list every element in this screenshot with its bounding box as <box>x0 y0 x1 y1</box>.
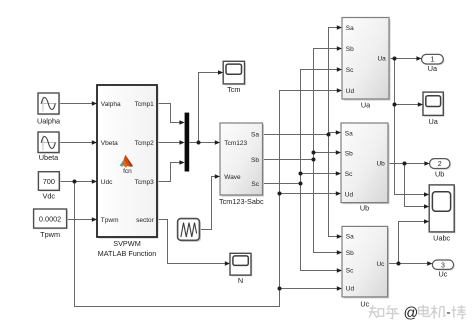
svg-text:Vbeta: Vbeta <box>101 140 118 147</box>
wire Ua branch down to Uabc input 1 <box>395 59 425 195</box>
block Vdc constant 700 <box>38 172 60 192</box>
wire Ualpha to Valpha <box>59 103 93 105</box>
svg-text:Ubeta: Ubeta <box>39 153 59 162</box>
svg-text:Ub: Ub <box>360 204 369 213</box>
wire Uc output to outport 3 <box>388 263 428 265</box>
svg-text:Sb: Sb <box>346 250 354 257</box>
svg-text:Ua: Ua <box>428 64 438 73</box>
arrow into Ub.Sb <box>336 150 341 155</box>
wire Sa bus down to Uc.Sa <box>329 135 338 237</box>
arrow into Wave pin <box>215 174 220 179</box>
arrow into Ub.Ud <box>336 191 341 196</box>
junction Sa bus <box>327 133 331 137</box>
svg-text:Vdc: Vdc <box>43 191 56 200</box>
block Tcm123-Sabc subsystem <box>220 123 264 197</box>
svg-text:@: @ <box>404 306 419 322</box>
svg-text:MATLAB Function: MATLAB Function <box>98 249 157 258</box>
junction Sc bus lower <box>299 182 303 186</box>
wire Sc bus up to Ua.Sc <box>301 70 338 174</box>
block Uc subsystem <box>342 226 389 298</box>
arrow into N scope <box>225 261 230 266</box>
wire Vdc feedback bus to Ua.Ud <box>75 91 338 307</box>
svg-text:Ub: Ub <box>435 169 444 178</box>
svg-text:Sa: Sa <box>251 132 259 139</box>
svg-text:Ua: Ua <box>361 101 371 110</box>
svg-text:SVPWM: SVPWM <box>113 239 141 248</box>
arrow into Uabc input 1 <box>424 192 429 197</box>
junction Sc bus upper <box>299 172 303 176</box>
svg-text:Tcm: Tcm <box>227 85 240 94</box>
wire Sc output to bus <box>263 183 301 185</box>
outport 1 oval <box>422 54 445 65</box>
wire Sb output to bus <box>263 159 314 161</box>
arrow into Tpwm pin <box>92 217 97 222</box>
junction Ua output <box>393 57 397 61</box>
arrow into outport 3 <box>427 261 432 266</box>
svg-text:Sa: Sa <box>345 130 353 137</box>
mux bar <box>185 113 190 172</box>
svg-text:Sc: Sc <box>251 181 259 188</box>
wire Sb bus jog to Ub.Sb <box>314 153 337 160</box>
arrow into Ub.Sa <box>336 130 341 135</box>
arrow into Uc.Sb <box>337 250 342 255</box>
arrow mux input 1 <box>179 120 184 125</box>
svg-text:Udc: Udc <box>101 179 113 186</box>
svg-text:700: 700 <box>43 177 55 186</box>
svg-text:3: 3 <box>441 262 445 269</box>
svg-text:N: N <box>238 276 243 285</box>
wire Uc branch up to Uabc input 3 <box>399 222 425 264</box>
svg-text:Uabc: Uabc <box>433 233 450 242</box>
block Ua subsystem <box>342 18 391 101</box>
block Ua scope <box>423 92 445 117</box>
block Ualpha sine wave source <box>38 93 60 115</box>
arrow into Uc.Sc <box>337 268 342 273</box>
arrow into Udc <box>92 179 97 184</box>
svg-text:Sc: Sc <box>346 268 354 275</box>
svg-text:Sc: Sc <box>346 67 354 74</box>
wire Tcmp1 to mux <box>157 104 180 123</box>
svg-text:Wave: Wave <box>224 174 241 181</box>
junction Ub output <box>403 162 407 166</box>
arrow into Uc.Ud <box>337 286 342 291</box>
svg-text:Sa: Sa <box>346 25 354 32</box>
junction Vdc branch <box>73 180 77 184</box>
arrow mux input 3 <box>179 160 184 165</box>
svg-text:Ua: Ua <box>377 56 386 63</box>
svg-text:Uc: Uc <box>360 300 369 309</box>
svg-text:Uc: Uc <box>439 270 448 279</box>
wire Ua branch to Ua scope <box>395 104 419 106</box>
block Ubeta sine wave source <box>38 132 60 154</box>
wire Ubeta to Vbeta <box>59 142 93 144</box>
arrow into Ua.Sc <box>337 67 342 72</box>
block N scope <box>230 253 252 276</box>
svg-text:1: 1 <box>430 57 434 64</box>
wire Ub branch down to Uabc input 2 <box>405 164 425 207</box>
svg-text:Tpwm: Tpwm <box>40 230 60 239</box>
svg-text:Tcmp3: Tcmp3 <box>135 179 155 186</box>
block Tcm scope <box>223 61 246 85</box>
arrow into Ub.Sc <box>336 171 341 176</box>
wire Sc bus jog to Ub.Sc <box>301 174 337 184</box>
wire sector to N scope <box>157 220 226 264</box>
block Uabc scope <box>429 185 456 234</box>
svg-text:Sb: Sb <box>346 46 354 53</box>
wire Sc bus down to Uc.Sc <box>301 184 338 271</box>
arrow into outport 1 <box>416 56 421 61</box>
wire Tpwm to SVPWM.Tpwm <box>67 219 93 221</box>
svg-text:Ub: Ub <box>376 161 385 168</box>
svg-text:0.0002: 0.0002 <box>39 214 61 223</box>
junction mux output branch <box>197 141 201 145</box>
wire Sa bus up to Ua.Sa <box>329 28 338 135</box>
svg-text:Sc: Sc <box>345 171 353 178</box>
block Tpwm constant 0.0002 <box>34 209 68 229</box>
arrow into Ua.Ud <box>337 88 342 93</box>
wire triangle generator to Wave <box>199 177 215 230</box>
svg-text:2: 2 <box>438 161 442 168</box>
svg-text:fcn: fcn <box>123 168 132 175</box>
arrow into Uabc input 2 <box>424 204 429 209</box>
arrow into outport 2 <box>424 161 429 166</box>
svg-text:Sb: Sb <box>345 150 353 157</box>
junction Ud bus at Ub <box>278 192 282 196</box>
junction Ud bus at Uc <box>278 287 282 291</box>
svg-text:Valpha: Valpha <box>101 101 121 108</box>
wire Sa bus jog to Ub.Sa <box>329 133 337 135</box>
svg-text:sector: sector <box>136 217 155 224</box>
wire branch to Tcm scope <box>199 73 219 143</box>
wire Sb bus up to Ua.Sb <box>314 49 338 153</box>
junction Ua scope branch <box>393 103 397 107</box>
arrow into Ua scope <box>418 102 423 107</box>
block repeating sequence triangle generator <box>178 219 201 242</box>
arrow into Uc.Sa <box>337 234 342 239</box>
wire Vdc bus branch to Uc.Ud <box>280 288 338 290</box>
svg-text:Ud: Ud <box>346 285 355 292</box>
wire Sb bus down to Uc.Sb <box>314 160 338 253</box>
svg-text:Sa: Sa <box>346 234 354 241</box>
svg-text:Tcmp2: Tcmp2 <box>135 140 155 147</box>
wire Ub output to outport 2 <box>388 163 425 165</box>
svg-text:-: - <box>446 305 450 320</box>
block Ub subsystem <box>341 123 390 204</box>
wire Ua output to outport 1 <box>389 58 417 60</box>
svg-text:Tpwm: Tpwm <box>101 217 119 224</box>
wire Vdc bus branch to Ub.Ud <box>280 193 337 195</box>
svg-text:Uc: Uc <box>376 261 385 268</box>
svg-text:Sb: Sb <box>251 157 259 164</box>
arrow into Tcm scope <box>218 70 223 75</box>
wire Tcmp3 to mux <box>157 163 180 182</box>
junction Uc output <box>397 262 401 266</box>
watermark 知乎 @电机-博 <box>369 305 466 319</box>
block SVPWM MATLAB Function U1 <box>97 85 159 239</box>
wire Sa output to bus <box>263 134 329 136</box>
svg-text:Ud: Ud <box>345 191 354 198</box>
wire Vdc to Udc <box>59 181 92 183</box>
svg-text:Ualpha: Ualpha <box>37 116 61 125</box>
svg-text:Ua: Ua <box>429 117 439 126</box>
arrow into Ua.Sb <box>337 46 342 51</box>
outport 3 oval <box>432 260 455 271</box>
arrow into Vbeta <box>92 140 97 145</box>
arrow into Uabc input 3 <box>424 219 429 224</box>
icon MATLAB fcn logo <box>120 155 134 175</box>
outport 2 oval <box>430 159 452 170</box>
svg-text:Ud: Ud <box>346 88 355 95</box>
arrow into Tcm123 pin <box>215 140 220 145</box>
wire mux output to Tcm123 <box>189 142 215 144</box>
wire Tcmp2 to mux <box>157 142 180 144</box>
arrow into Valpha <box>92 101 97 106</box>
junction Sb bus upper <box>312 151 316 155</box>
arrow into Ua.Sa <box>337 25 342 30</box>
arrow mux input 2 <box>179 140 184 145</box>
svg-text:Tcm123-Sabc: Tcm123-Sabc <box>219 197 264 206</box>
svg-text:Tcmp1: Tcmp1 <box>135 101 155 108</box>
svg-text:Tcm123: Tcm123 <box>224 140 247 147</box>
junction Sb bus lower <box>312 158 316 162</box>
